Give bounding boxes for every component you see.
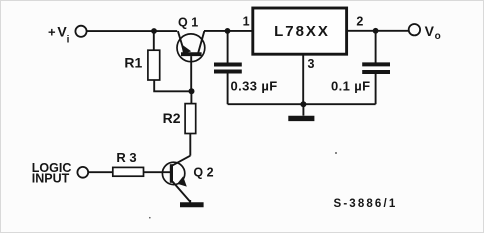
node speck artifact 2 — [149, 217, 151, 219]
svg-text:R2: R2 — [163, 110, 181, 126]
svg-text:2: 2 — [356, 15, 363, 29]
transistor Q2 — [162, 156, 190, 203]
ground (pin 3) — [288, 104, 314, 118]
op-amp U1 regulator L78XX box — [253, 8, 347, 54]
terminal Vo — [409, 24, 420, 35]
node ground junction — [300, 101, 306, 107]
svg-text:S-3886/1: S-3886/1 — [334, 198, 398, 210]
terminal +Vi — [75, 26, 86, 37]
svg-text:Q 2: Q 2 — [193, 166, 213, 180]
resistor R1 — [148, 50, 160, 80]
svg-text:INPUT: INPUT — [32, 172, 70, 186]
svg-text:R1: R1 — [124, 54, 142, 70]
label LOGIC INPUT — [32, 161, 72, 186]
svg-text:o: o — [435, 31, 441, 42]
node 0.33uF tap — [225, 28, 231, 34]
node 0.1uF tap — [373, 28, 379, 34]
transistor Q1 — [177, 31, 205, 91]
wire logic terminal to R3 — [88, 171, 112, 173]
wire Q1 collector to regulator pin 1 — [204, 30, 253, 32]
svg-text:V: V — [425, 23, 435, 39]
svg-text:0.1 µF: 0.1 µF — [331, 78, 371, 93]
svg-text:1: 1 — [243, 15, 250, 29]
node Q1 base / R2 junction — [189, 88, 195, 94]
wire base node to R2 — [190, 91, 192, 103]
label +Vi — [48, 23, 70, 45]
wire +Vi to Q1 emitter — [87, 30, 177, 32]
wire pin2 to Vo — [347, 30, 409, 32]
svg-text:i: i — [67, 35, 70, 46]
node R1 tap on input rail — [151, 28, 157, 34]
wire R1 bottom to base node — [154, 80, 191, 91]
svg-text:0.33 µF: 0.33 µF — [231, 78, 278, 93]
capacitor C2 0.1uF — [362, 31, 390, 104]
svg-text:Q 1: Q 1 — [178, 16, 198, 30]
label Vo — [425, 23, 441, 42]
wire R2 bottom to Q2 collector — [189, 134, 191, 156]
resistor R2 — [185, 104, 196, 134]
svg-text:3: 3 — [308, 57, 315, 71]
node speck artifact — [335, 152, 337, 154]
svg-text:R 3: R 3 — [116, 150, 136, 165]
wire ground rail — [228, 103, 376, 105]
resistor R3 — [113, 167, 144, 176]
capacitor C1 0.33uF — [214, 31, 242, 104]
svg-text:L78XX: L78XX — [274, 23, 330, 40]
svg-text:+: + — [48, 24, 56, 39]
terminal LOGIC INPUT — [77, 167, 88, 178]
wire R1 top lead — [153, 31, 155, 50]
wire pin 3 — [302, 54, 304, 104]
wire R3 to Q2 base — [144, 171, 170, 173]
ground (Q2 emitter) — [180, 202, 204, 207]
